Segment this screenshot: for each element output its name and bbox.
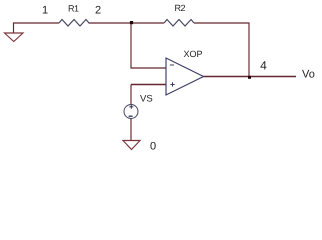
- svg-text:R2: R2: [175, 3, 186, 13]
- svg-text:2: 2: [95, 5, 101, 17]
- svg-text:Vo: Vo: [302, 69, 315, 81]
- svg-text:VS: VS: [140, 94, 153, 105]
- svg-text:1: 1: [42, 5, 48, 17]
- svg-text:XOP: XOP: [184, 49, 203, 59]
- svg-text:R1: R1: [68, 4, 79, 14]
- svg-text:0: 0: [150, 141, 156, 153]
- svg-text:4: 4: [260, 59, 267, 73]
